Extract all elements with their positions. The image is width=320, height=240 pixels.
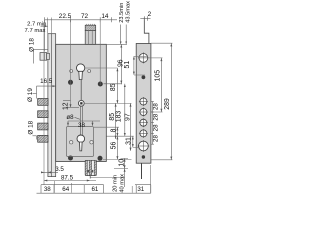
- svg-text:38: 38: [44, 186, 51, 193]
- svg-text:87.5: 87.5: [61, 174, 74, 181]
- svg-text:Ø 18: Ø 18: [28, 38, 35, 52]
- svg-text:20 min: 20 min: [113, 175, 119, 192]
- svg-text:72: 72: [81, 13, 89, 20]
- svg-text:28: 28: [152, 103, 159, 110]
- svg-text:Ø 18: Ø 18: [28, 120, 35, 134]
- svg-text:38: 38: [78, 122, 85, 129]
- svg-text:8: 8: [110, 128, 117, 132]
- svg-text:2.7 min: 2.7 min: [27, 22, 46, 28]
- svg-text:31: 31: [137, 186, 144, 193]
- svg-text:85: 85: [110, 83, 117, 91]
- svg-text:22.5: 22.5: [59, 13, 72, 20]
- svg-text:31: 31: [126, 137, 133, 145]
- svg-text:64: 64: [62, 186, 69, 193]
- svg-text:97: 97: [125, 113, 132, 121]
- svg-text:51: 51: [124, 61, 131, 69]
- svg-text:40 max: 40 max: [119, 174, 125, 193]
- svg-text:183: 183: [116, 111, 123, 123]
- svg-text:ø8: ø8: [66, 114, 74, 121]
- svg-text:28: 28: [152, 124, 159, 131]
- svg-text:12: 12: [63, 102, 70, 110]
- svg-text:Ø 19: Ø 19: [27, 88, 34, 102]
- svg-text:61: 61: [91, 186, 98, 193]
- svg-text:2: 2: [148, 11, 152, 18]
- svg-text:289: 289: [164, 98, 171, 110]
- svg-text:23.5min: 23.5min: [119, 3, 125, 23]
- svg-text:43.5max: 43.5max: [125, 1, 131, 23]
- svg-text:28: 28: [152, 113, 159, 120]
- svg-text:3.5: 3.5: [55, 166, 64, 173]
- svg-text:14: 14: [101, 13, 109, 20]
- svg-text:105: 105: [155, 70, 162, 82]
- svg-text:56: 56: [110, 142, 117, 150]
- svg-text:7.7 max: 7.7 max: [25, 28, 46, 34]
- svg-text:16.5: 16.5: [40, 78, 53, 85]
- svg-text:28: 28: [152, 135, 159, 142]
- svg-text:10: 10: [118, 159, 125, 167]
